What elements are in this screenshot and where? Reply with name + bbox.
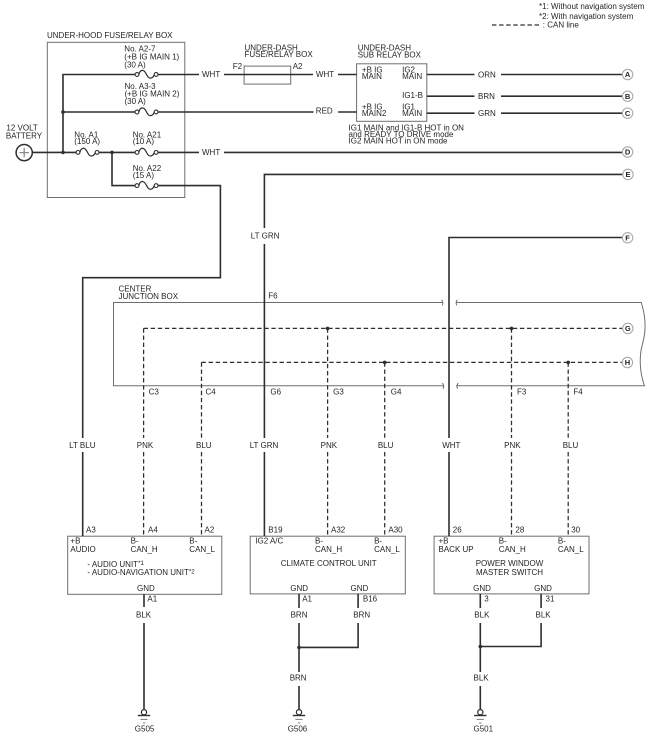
svg-text:F3: F3 (517, 388, 527, 397)
svg-text:G3: G3 (333, 388, 344, 397)
svg-text:(10 A): (10 A) (133, 137, 155, 146)
svg-text:G4: G4 (391, 388, 402, 397)
svg-text:D: D (625, 148, 631, 157)
svg-text:RED: RED (316, 106, 333, 115)
svg-text:F4: F4 (573, 388, 583, 397)
svg-text:BLK: BLK (536, 611, 552, 620)
svg-text:*1: Without navigation system: *1: Without navigation system (539, 2, 645, 11)
svg-text:CAN_L: CAN_L (189, 545, 215, 554)
svg-text:CAN_L: CAN_L (558, 545, 584, 554)
svg-text:G506: G506 (288, 724, 308, 733)
svg-text:BLK: BLK (474, 611, 490, 620)
svg-text:- AUDIO-NAVIGATION UNIT*2: - AUDIO-NAVIGATION UNIT*2 (87, 568, 195, 577)
svg-text:IG2 MAIN HOT in ON mode: IG2 MAIN HOT in ON mode (349, 136, 449, 145)
svg-text:(150 A): (150 A) (74, 137, 100, 146)
svg-text:G: G (625, 324, 631, 333)
svg-text:BLK: BLK (136, 611, 152, 620)
svg-text:26: 26 (453, 525, 462, 534)
svg-text:LT GRN: LT GRN (250, 441, 279, 450)
svg-text:CAN_H: CAN_H (131, 545, 158, 554)
svg-text:BRN: BRN (290, 673, 307, 682)
svg-text:A1: A1 (302, 595, 312, 604)
svg-text:BRN: BRN (291, 611, 308, 620)
svg-text:LT BLU: LT BLU (69, 441, 96, 450)
svg-text:LT GRN: LT GRN (251, 231, 280, 240)
svg-text:BRN: BRN (353, 611, 370, 620)
svg-text:WHT: WHT (202, 70, 220, 79)
svg-text:(30 A): (30 A) (124, 61, 146, 70)
svg-text:IG1-B: IG1-B (402, 91, 423, 100)
svg-text:B16: B16 (363, 595, 378, 604)
svg-text:A2: A2 (205, 525, 215, 534)
svg-text:3: 3 (484, 595, 489, 604)
svg-text:B19: B19 (268, 525, 283, 534)
svg-text:POWER WINDOW: POWER WINDOW (476, 559, 544, 568)
svg-text:SUB RELAY BOX: SUB RELAY BOX (358, 51, 422, 60)
svg-text:GND: GND (290, 584, 308, 593)
svg-text:A3: A3 (86, 525, 96, 534)
svg-text:A2: A2 (293, 62, 303, 71)
svg-text:B-: B- (131, 537, 139, 546)
svg-text:A32: A32 (331, 525, 346, 534)
svg-text:A: A (625, 70, 631, 79)
svg-text:PNK: PNK (504, 441, 521, 450)
svg-text:G6: G6 (270, 388, 281, 397)
svg-text:ORN: ORN (478, 70, 496, 79)
svg-text:GND: GND (137, 584, 155, 593)
svg-text:C3: C3 (149, 388, 160, 397)
svg-text:(15 A): (15 A) (133, 171, 155, 180)
svg-text:H: H (625, 358, 630, 367)
svg-text:BATTERY: BATTERY (6, 132, 43, 141)
svg-text:PNK: PNK (137, 441, 154, 450)
svg-text:UNDER-HOOD FUSE/RELAY BOX: UNDER-HOOD FUSE/RELAY BOX (47, 31, 173, 40)
svg-text:CAN_H: CAN_H (315, 545, 342, 554)
svg-text:B-: B- (499, 537, 507, 546)
svg-text:GND: GND (351, 584, 369, 593)
svg-text:MAIN: MAIN (402, 72, 422, 81)
svg-text:GND: GND (534, 584, 552, 593)
svg-text:+B: +B (439, 537, 449, 546)
svg-text:*2: With navigation system: *2: With navigation system (539, 12, 634, 21)
svg-text:BRN: BRN (478, 92, 495, 101)
svg-text:GND: GND (473, 584, 491, 593)
svg-text:BLU: BLU (378, 441, 394, 450)
svg-text:31: 31 (546, 595, 555, 604)
svg-text:MAIN2: MAIN2 (362, 109, 387, 118)
svg-text:30: 30 (571, 525, 580, 534)
svg-text:A4: A4 (148, 525, 158, 534)
svg-text:WHT: WHT (442, 441, 460, 450)
svg-text:IG2 A/C: IG2 A/C (255, 537, 283, 546)
svg-text:28: 28 (515, 525, 524, 534)
svg-text:B-: B- (315, 537, 323, 546)
svg-text:WHT: WHT (202, 148, 220, 157)
svg-text:BACK UP: BACK UP (439, 545, 474, 554)
svg-text:A30: A30 (388, 525, 403, 534)
svg-text:PNK: PNK (321, 441, 338, 450)
svg-text:F6: F6 (268, 291, 278, 300)
svg-text:JUNCTION BOX: JUNCTION BOX (119, 292, 179, 301)
svg-text:G501: G501 (474, 724, 494, 733)
svg-text:C4: C4 (206, 388, 217, 397)
svg-text:: CAN line: : CAN line (543, 21, 580, 30)
svg-text:A1: A1 (147, 595, 157, 604)
svg-text:BLK: BLK (474, 673, 490, 682)
svg-text:CAN_H: CAN_H (499, 545, 526, 554)
svg-text:BLU: BLU (196, 441, 212, 450)
svg-text:CLIMATE CONTROL UNIT: CLIMATE CONTROL UNIT (281, 559, 377, 568)
svg-text:+B: +B (70, 537, 80, 546)
svg-text:CAN_L: CAN_L (374, 545, 400, 554)
svg-text:E: E (625, 170, 630, 179)
svg-text:MAIN: MAIN (402, 109, 422, 118)
svg-text:B: B (625, 92, 631, 101)
svg-text:BLU: BLU (563, 441, 579, 450)
svg-text:G505: G505 (135, 724, 155, 733)
svg-text:FUSE/RELAY BOX: FUSE/RELAY BOX (245, 50, 314, 59)
svg-text:(30 A): (30 A) (125, 97, 147, 106)
svg-text:MASTER SWITCH: MASTER SWITCH (476, 568, 543, 577)
svg-text:C: C (625, 109, 631, 118)
svg-text:WHT: WHT (316, 70, 334, 79)
svg-text:GRN: GRN (478, 109, 496, 118)
svg-text:B-: B- (374, 537, 382, 546)
svg-text:AUDIO: AUDIO (70, 545, 95, 554)
svg-text:F: F (625, 234, 630, 243)
svg-text:B-: B- (558, 537, 566, 546)
svg-text:B-: B- (189, 537, 197, 546)
svg-text:MAIN: MAIN (362, 72, 382, 81)
svg-text:F2: F2 (233, 62, 243, 71)
